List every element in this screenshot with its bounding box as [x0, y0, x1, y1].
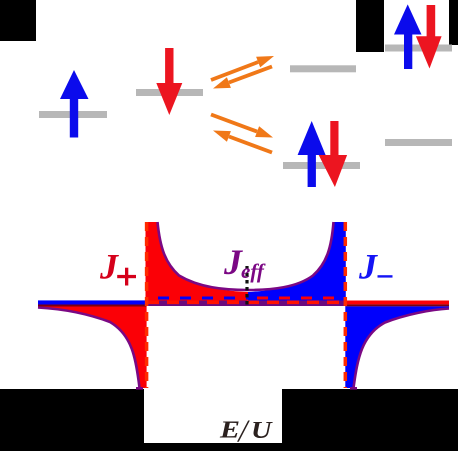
plot red fill below axis (left wing) [38, 306, 147, 388]
black margin patch bottom-left [0, 389, 144, 451]
level line site1 [39, 111, 107, 118]
baseline dashed red center [147, 300, 345, 304]
J_eff purple left wing curve [38, 308, 140, 389]
plot blue fill below axis (right wing) [345, 306, 449, 388]
doublon spin-up arrow middle [298, 121, 326, 187]
purple wing end cap left [136, 387, 143, 390]
spin-down arrow right pair [416, 5, 442, 69]
plot red fill above axis (J_plus branch) [146, 222, 249, 301]
exchange arrow lower pair D [213, 131, 273, 155]
black margin patch bottom-right [282, 389, 458, 451]
level line middle-bottom [283, 162, 360, 169]
exchange arrow lower pair C [210, 113, 273, 138]
svg-text:J: J [99, 247, 119, 287]
doublon spin-down arrow middle [319, 121, 347, 187]
dashed black center tick [244, 265, 251, 282]
J_eff purple right wing curve [354, 309, 450, 389]
svg-text:eff: eff [241, 259, 266, 283]
dashed red vertical at right resonance [344, 222, 348, 388]
baseline alternating dashes center upper [147, 297, 345, 300]
exchange arrow upper pair A [210, 56, 274, 82]
level line right-bottom [385, 139, 452, 146]
black margin patch top-right [449, 0, 458, 45]
spin-up arrow right pair [394, 4, 422, 69]
baseline purple band center [147, 301, 346, 307]
svg-text:J: J [223, 242, 243, 282]
exchange arrow upper pair B [213, 65, 273, 89]
black margin band bottom-center [144, 443, 282, 451]
baseline maroon line right [345, 304, 449, 306]
baseline maroon line left [38, 305, 147, 307]
plot blue fill above axis (J_minus branch) [248, 222, 346, 301]
svg-text:E: E [219, 417, 240, 444]
level line middle-top [290, 65, 356, 72]
level line site2 [136, 89, 203, 96]
purple wing end cap right [350, 387, 357, 390]
spin-up arrow site1 [60, 70, 89, 138]
level line right-top [385, 45, 452, 52]
black margin patch top-center [356, 0, 384, 52]
black margin patch top-left [0, 0, 36, 41]
baseline blue segment left [38, 300, 147, 304]
spin-down arrow site2 [156, 48, 182, 115]
svg-text:U: U [251, 417, 273, 444]
J_eff purple U curve [158, 222, 334, 290]
svg-text:J: J [358, 247, 378, 287]
baseline red segment right [345, 301, 449, 305]
dashed red vertical at left resonance [145, 222, 149, 388]
